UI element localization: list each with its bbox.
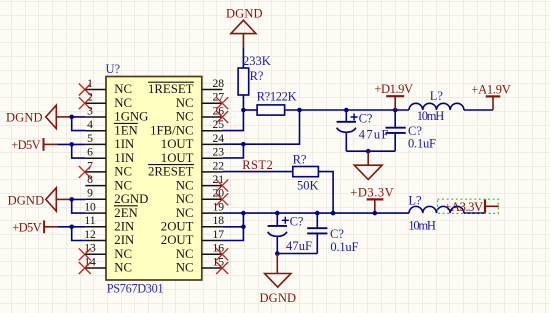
capacitor C? 47uF (bottom, electrolytic) <box>268 213 312 253</box>
pin 6 stub <box>85 157 106 159</box>
no-ERC X pin 1 <box>79 84 91 96</box>
junction <box>344 108 349 113</box>
ground DGND (bottom caps) <box>260 254 297 305</box>
svg-text:1OUT: 1OUT <box>161 151 194 165</box>
svg-text:+A1.9V: +A1.9V <box>471 82 511 96</box>
capacitor C? 47uF (top, electrolytic) <box>337 110 389 151</box>
svg-text:5: 5 <box>87 132 93 145</box>
svg-text:12: 12 <box>84 228 96 241</box>
pin 5 stub <box>85 143 106 145</box>
inductor L? 10mH (top) <box>409 89 464 123</box>
wire DGND to R233K <box>242 47 244 68</box>
svg-text:C?: C? <box>359 112 373 126</box>
no-ERC X pin 26 <box>216 111 228 123</box>
junction <box>241 142 246 147</box>
junction <box>373 211 378 216</box>
no-ERC X pin 14 <box>79 262 91 274</box>
svg-text:27: 27 <box>213 91 225 104</box>
no-ERC X pin 13 <box>79 248 91 260</box>
svg-text:1FB/NC: 1FB/NC <box>150 123 193 137</box>
svg-text:PS767D301: PS767D301 <box>107 281 164 295</box>
no-ERC X pin 2 <box>79 97 91 109</box>
svg-text:NC: NC <box>176 206 194 220</box>
svg-text:1OUT: 1OUT <box>161 137 194 151</box>
junction <box>315 211 320 216</box>
svg-text:R?: R? <box>293 153 307 167</box>
pin 26 stub <box>202 116 223 118</box>
svg-text:9: 9 <box>87 187 93 200</box>
no-ERC X pin 20 <box>216 193 228 205</box>
junction <box>69 225 74 230</box>
wire to pin 25 (1FB/NC) <box>222 110 243 131</box>
svg-text:R?: R? <box>250 69 264 83</box>
svg-text:2RESET: 2RESET <box>148 165 194 179</box>
junction <box>275 251 280 256</box>
svg-text:DGND: DGND <box>8 193 45 207</box>
svg-text:L?: L? <box>430 89 444 103</box>
svg-text:NC: NC <box>176 110 194 124</box>
capacitor C? 0.1uF (top) <box>386 110 437 151</box>
svg-text:R?122K: R?122K <box>257 89 297 103</box>
junction <box>69 197 74 202</box>
pin 10 stub <box>85 212 106 214</box>
svg-text:DGND: DGND <box>226 7 263 21</box>
svg-text:NC: NC <box>176 247 194 261</box>
svg-text:DGND: DGND <box>6 111 43 125</box>
svg-text:+D5V: +D5V <box>11 138 41 152</box>
svg-text:22: 22 <box>213 159 225 172</box>
wire node to R122K <box>243 109 257 111</box>
power port +A1.9V <box>471 82 511 110</box>
power port +D1.9V <box>374 82 413 110</box>
svg-text:2OUT: 2OUT <box>161 233 194 247</box>
pin 13 stub <box>85 253 106 255</box>
pin 20 stub <box>202 198 223 200</box>
wire pin 24 to pin 23 <box>222 144 243 158</box>
wire DGND to pins 9,10 <box>70 199 85 213</box>
no-ERC X pin 15 <box>216 262 228 274</box>
power port +D3.3V <box>350 186 394 213</box>
svg-text:2IN: 2IN <box>114 220 134 234</box>
pin 14 stub <box>85 267 106 269</box>
wire +D5V to pins 5,6 <box>57 144 85 158</box>
svg-text:+D1.9V: +D1.9V <box>374 82 413 96</box>
no-ERC X pin 21 <box>216 180 228 192</box>
svg-text:23: 23 <box>213 146 225 159</box>
svg-text:1GNG: 1GNG <box>114 110 148 124</box>
wire R50K to rail <box>318 172 333 214</box>
pin 23 stub <box>202 157 223 159</box>
power port +A3.3V (rotated) <box>444 199 498 214</box>
pin 25 stub <box>202 130 223 132</box>
svg-text:1IN: 1IN <box>114 137 134 151</box>
pin 24 stub <box>202 143 223 145</box>
wire L? to +A3.3V <box>464 212 485 214</box>
junction <box>241 211 246 216</box>
resistor R? 122K <box>257 89 297 115</box>
wire caps bottom <box>346 150 395 152</box>
junction <box>366 149 371 154</box>
svg-text:NC: NC <box>114 82 132 96</box>
no-ERC X pin 7 <box>79 166 91 178</box>
svg-text:DGND: DGND <box>260 291 297 305</box>
pin 8 stub <box>85 185 106 187</box>
junction <box>331 211 336 216</box>
svg-text:50K: 50K <box>297 179 319 193</box>
svg-text:NC: NC <box>114 178 132 192</box>
power port +D5V (pins 5/6) <box>11 138 57 152</box>
svg-text:NC: NC <box>114 96 132 110</box>
resistor R? 233K <box>238 54 271 95</box>
svg-text:47uF: 47uF <box>359 128 389 142</box>
pin 18 stub <box>202 226 223 228</box>
svg-text:2EN: 2EN <box>114 206 137 220</box>
no-ERC X pin 27 <box>216 97 228 109</box>
junction <box>297 108 302 113</box>
svg-text:NC: NC <box>114 165 132 179</box>
pin 1 stub <box>85 89 106 91</box>
junction <box>241 225 246 230</box>
svg-text:+D5V: +D5V <box>12 220 42 234</box>
pin 28 stub <box>202 89 223 91</box>
svg-text:1EN: 1EN <box>114 123 137 137</box>
svg-text:21: 21 <box>213 173 225 186</box>
junction <box>69 142 74 147</box>
svg-text:10: 10 <box>84 201 96 214</box>
svg-text:NC: NC <box>176 178 194 192</box>
svg-text:RST2: RST2 <box>242 158 273 172</box>
svg-text:2OUT: 2OUT <box>161 220 194 234</box>
no-ERC X pin 16 <box>216 248 228 260</box>
svg-text:NC: NC <box>114 247 132 261</box>
pin 17 stub <box>202 240 223 242</box>
ground DGND (pins 9/10) <box>8 188 70 211</box>
power port +D5V (pins 11/12) <box>12 220 57 234</box>
pin 9 stub <box>85 198 106 200</box>
pin 21 stub <box>202 185 223 187</box>
svg-text:2IN: 2IN <box>114 233 134 247</box>
wire rail down to pin 24 <box>222 110 299 144</box>
svg-text:C?: C? <box>290 214 304 228</box>
pin 11 stub <box>85 226 106 228</box>
pin 15 stub <box>202 267 223 269</box>
wire bottom caps join <box>277 253 317 255</box>
svg-text:1IN: 1IN <box>114 151 134 165</box>
junction <box>275 211 280 216</box>
wire DGND to pins 3,4 <box>70 117 85 131</box>
svg-text:1RESET: 1RESET <box>148 82 194 96</box>
pin 19 stub <box>202 212 223 214</box>
pin 22 stub <box>202 171 223 173</box>
svg-text:11: 11 <box>84 214 95 227</box>
resistor R? 50K <box>293 153 319 193</box>
selection box (green dashed) <box>438 199 499 213</box>
junction <box>69 115 74 120</box>
svg-text:+D3.3V: +D3.3V <box>350 186 394 200</box>
svg-text:C?: C? <box>330 227 344 241</box>
svg-text:+A3.3V: +A3.3V <box>444 200 483 214</box>
svg-text:NC: NC <box>176 261 194 275</box>
wire pin 22 to R50K <box>222 171 292 173</box>
pin 27 stub <box>202 102 223 104</box>
svg-text:4: 4 <box>87 118 93 131</box>
wire R233K to node <box>242 95 244 110</box>
ground DGND (top caps) <box>354 151 382 179</box>
svg-text:47uF: 47uF <box>286 239 312 253</box>
junction <box>393 108 398 113</box>
svg-text:0.1uF: 0.1uF <box>330 240 358 254</box>
svg-text:NC: NC <box>176 192 194 206</box>
pin 2 stub <box>85 102 106 104</box>
svg-text:NC: NC <box>114 261 132 275</box>
wire L? to +A1.9V <box>464 109 493 111</box>
pin 12 stub <box>85 240 106 242</box>
svg-text:233K: 233K <box>243 54 271 68</box>
svg-text:10mH: 10mH <box>408 218 436 232</box>
svg-text:L?: L? <box>408 194 422 208</box>
capacitor C? 0.1uF (bottom) <box>307 213 358 254</box>
svg-text:16: 16 <box>213 242 225 255</box>
wire +D5V to pins 11,12 <box>57 227 85 241</box>
svg-text:10mH: 10mH <box>417 109 445 123</box>
pin 16 stub <box>202 253 223 255</box>
svg-text:24: 24 <box>213 132 225 145</box>
ground DGND top <box>226 7 263 48</box>
pin 3 stub <box>85 116 106 118</box>
inductor L? 10mH (bottom) <box>408 194 464 233</box>
svg-text:NC: NC <box>176 96 194 110</box>
junction <box>241 108 246 113</box>
wire R122K to +D1.9V rail <box>285 109 409 111</box>
svg-text:U?: U? <box>106 62 121 76</box>
wire rail to pins 18,17 <box>222 213 243 240</box>
svg-text:6: 6 <box>87 146 93 159</box>
svg-text:0.1uF: 0.1uF <box>408 136 436 150</box>
pin 4 stub <box>85 130 106 132</box>
op IC U? PS767D301 body <box>106 77 202 281</box>
svg-text:18: 18 <box>213 214 225 227</box>
wire pin 19 rail <box>222 212 409 214</box>
svg-text:17: 17 <box>213 228 225 241</box>
svg-text:2GND: 2GND <box>114 192 148 206</box>
pin 7 stub <box>85 171 106 173</box>
svg-text:28: 28 <box>213 77 225 90</box>
ground DGND (pins 3/4) <box>6 105 70 128</box>
